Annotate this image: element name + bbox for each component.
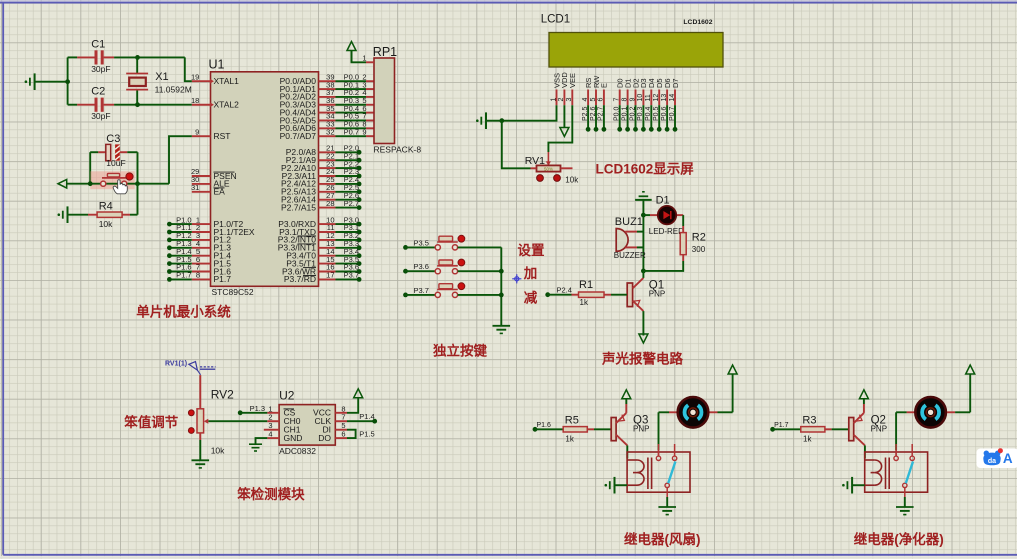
svg-text:P1.4: P1.4	[359, 412, 374, 421]
svg-text:声光报警电路: 声光报警电路	[601, 351, 683, 367]
svg-text:P0.2: P0.2	[629, 106, 636, 121]
svg-text:笨检测模块: 笨检测模块	[237, 486, 305, 502]
svg-text:PNP: PNP	[649, 290, 665, 299]
svg-text:U1: U1	[209, 58, 225, 72]
svg-text:2: 2	[558, 98, 565, 102]
svg-text:X1: X1	[155, 71, 168, 83]
svg-text:R4: R4	[99, 201, 113, 213]
svg-text:D7: D7	[671, 78, 680, 88]
svg-text:P0.5: P0.5	[653, 106, 660, 121]
svg-text:R5: R5	[565, 414, 579, 426]
svg-text:14: 14	[669, 94, 676, 102]
svg-text:ADC0832: ADC0832	[279, 446, 316, 456]
svg-text:1k: 1k	[565, 434, 574, 443]
svg-text:独立按键: 独立按键	[433, 343, 487, 359]
svg-text:3: 3	[566, 98, 573, 102]
svg-text:8: 8	[196, 271, 200, 280]
svg-text:PNP: PNP	[633, 425, 649, 434]
svg-text:P1.7: P1.7	[774, 422, 789, 429]
svg-text:LED-RED: LED-RED	[649, 227, 684, 236]
svg-text:RV1: RV1	[525, 155, 545, 167]
svg-text:P3.7: P3.7	[414, 286, 429, 295]
svg-text:4: 4	[268, 430, 272, 439]
svg-text:笨值调节: 笨值调节	[124, 414, 178, 430]
svg-text:C1: C1	[91, 38, 105, 50]
svg-text:RV2: RV2	[211, 388, 234, 402]
svg-text:加: 加	[523, 266, 538, 281]
svg-text:P0.7/AD7: P0.7/AD7	[280, 131, 317, 141]
svg-text:P2.4: P2.4	[557, 286, 572, 295]
svg-text:P3.7: P3.7	[344, 271, 359, 280]
svg-text:1k: 1k	[803, 434, 812, 443]
svg-text:LCD1: LCD1	[541, 14, 570, 26]
svg-text:11: 11	[645, 94, 652, 101]
svg-text:9: 9	[195, 127, 199, 136]
svg-text:设置: 设置	[518, 243, 546, 258]
svg-text:1: 1	[550, 98, 557, 102]
svg-text:10uF: 10uF	[106, 158, 125, 168]
svg-text:P0.4: P0.4	[645, 106, 652, 121]
svg-text:RP1: RP1	[373, 45, 397, 59]
svg-text:P2.7: P2.7	[344, 199, 359, 208]
svg-text:28: 28	[326, 199, 334, 208]
svg-text:BUZZER: BUZZER	[614, 251, 646, 260]
svg-text:1k: 1k	[580, 298, 589, 307]
svg-text:RV1(1): RV1(1)	[165, 360, 187, 367]
svg-text:19: 19	[191, 72, 199, 81]
svg-text:P2.7: P2.7	[598, 106, 605, 121]
svg-text:9: 9	[629, 98, 636, 102]
svg-text:继电器(净化器): 继电器(净化器)	[854, 531, 944, 547]
svg-text:P1.7: P1.7	[176, 271, 191, 280]
svg-text:10: 10	[637, 94, 644, 102]
svg-text:VEE: VEE	[568, 73, 577, 88]
svg-text:RESPACK-8: RESPACK-8	[374, 145, 422, 155]
svg-text:32: 32	[326, 127, 334, 136]
svg-text:30pF: 30pF	[91, 111, 110, 121]
svg-text:U2: U2	[279, 389, 295, 403]
svg-text:D1: D1	[656, 195, 670, 207]
svg-text:30pF: 30pF	[91, 64, 110, 74]
svg-text:50%: 50%	[544, 167, 553, 172]
svg-text:P1.7: P1.7	[214, 274, 232, 284]
svg-text:P0.7: P0.7	[669, 106, 676, 121]
svg-text:P2.7/A15: P2.7/A15	[281, 202, 316, 212]
svg-text:31: 31	[191, 183, 199, 192]
svg-text:C3: C3	[106, 133, 120, 145]
svg-text:STC89C52: STC89C52	[212, 287, 254, 297]
svg-text:9: 9	[362, 127, 366, 136]
svg-text:单片机最小系统: 单片机最小系统	[136, 304, 231, 320]
svg-text:LCD1602: LCD1602	[683, 19, 712, 26]
svg-text:10k: 10k	[99, 219, 113, 229]
svg-text:12: 12	[653, 94, 660, 102]
svg-text:R1: R1	[579, 279, 593, 291]
svg-text:10k: 10k	[211, 445, 225, 455]
svg-text:P1.5: P1.5	[359, 429, 374, 438]
svg-text:XTAL1: XTAL1	[214, 76, 240, 86]
svg-text:P0.0: P0.0	[614, 106, 621, 121]
svg-text:E: E	[600, 83, 609, 88]
svg-text:da: da	[988, 458, 996, 465]
svg-text:P1.3: P1.3	[250, 404, 265, 413]
svg-text:GND: GND	[284, 433, 303, 443]
svg-text:4: 4	[582, 98, 589, 102]
svg-text:BUZ1: BUZ1	[615, 216, 643, 228]
svg-text:11.0592M: 11.0592M	[155, 85, 192, 95]
svg-text:R3: R3	[802, 414, 816, 426]
svg-text:17: 17	[326, 271, 334, 280]
svg-text:8: 8	[621, 98, 628, 102]
svg-text:C2: C2	[91, 86, 105, 98]
svg-text:P2.6: P2.6	[590, 106, 597, 121]
svg-text:10k: 10k	[565, 175, 579, 184]
svg-text:继电器(风扇): 继电器(风扇)	[624, 531, 701, 547]
svg-text:XTAL2: XTAL2	[214, 100, 240, 110]
svg-text:P3.5: P3.5	[414, 238, 429, 247]
svg-text:18: 18	[191, 96, 199, 105]
svg-text:RST: RST	[214, 131, 231, 141]
svg-text:1: 1	[362, 54, 366, 63]
svg-text:7: 7	[614, 98, 621, 102]
svg-text:6: 6	[598, 98, 605, 102]
svg-text:P0.6: P0.6	[661, 106, 668, 121]
svg-text:PNP: PNP	[871, 425, 887, 434]
svg-text:P0.1: P0.1	[621, 106, 628, 121]
svg-text:DO: DO	[318, 433, 331, 443]
svg-text:减: 减	[524, 289, 538, 305]
svg-text:R2: R2	[692, 231, 706, 243]
svg-text:A: A	[1003, 451, 1013, 466]
svg-text:P1.6: P1.6	[537, 422, 552, 429]
svg-text:P0.7: P0.7	[344, 127, 359, 136]
svg-text:5: 5	[590, 98, 597, 102]
svg-text:P3.6: P3.6	[414, 262, 429, 271]
svg-text:13: 13	[661, 94, 668, 102]
svg-text:P0.3: P0.3	[637, 106, 644, 121]
svg-text:LCD1602显示屏: LCD1602显示屏	[596, 162, 695, 177]
svg-text:300: 300	[692, 245, 706, 254]
svg-text:6: 6	[341, 430, 345, 439]
svg-text:P2.5: P2.5	[582, 106, 589, 121]
